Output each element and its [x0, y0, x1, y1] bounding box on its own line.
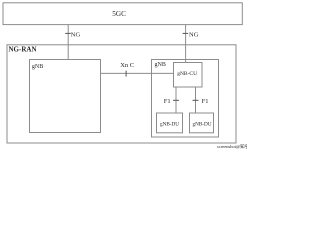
tick NG left: [65, 32, 71, 34]
svg-text:gNB: gNB: [32, 64, 43, 70]
box gNB-DU left: [157, 113, 183, 133]
wire NG right vertical: [185, 25, 187, 63]
svg-text:NG: NG: [71, 31, 81, 38]
svg-text:screenshot@知乎用户: screenshot@知乎用户: [217, 143, 247, 150]
svg-text:gNB-DU: gNB-DU: [193, 122, 212, 128]
tick F1 left: [173, 99, 179, 101]
box gNB-CU: [174, 63, 203, 88]
box gNB right: [152, 60, 219, 138]
box NG-RAN: [7, 45, 236, 143]
wire F1 left vertical: [175, 87, 177, 113]
box gNB left: [30, 60, 101, 133]
svg-text:F1: F1: [164, 98, 171, 105]
svg-text:NG: NG: [189, 31, 199, 38]
tick NG right: [183, 32, 189, 34]
svg-text:Xn C: Xn C: [120, 62, 134, 69]
svg-text:gNB-CU: gNB-CU: [177, 71, 197, 77]
wire Xn-C horizontal: [101, 72, 174, 74]
box gNB-DU right: [190, 113, 214, 133]
svg-text:gNB: gNB: [155, 62, 166, 68]
tick Xn-C: [125, 71, 127, 77]
wire F1 right vertical: [195, 87, 197, 113]
svg-text:5GC: 5GC: [112, 10, 126, 18]
box 5GC: [3, 3, 242, 25]
wire NG left vertical: [67, 25, 69, 60]
svg-text:NG-RAN: NG-RAN: [9, 45, 37, 53]
svg-text:F1: F1: [202, 98, 209, 105]
svg-text:gNB-DU: gNB-DU: [160, 122, 179, 128]
tick F1 right: [193, 99, 199, 101]
